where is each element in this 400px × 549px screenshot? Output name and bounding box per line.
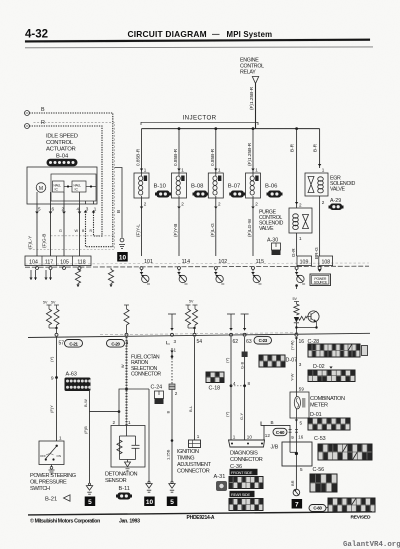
svg-text:C-60: C-60 [276,430,285,435]
svg-text:G-Y: G-Y [239,413,244,420]
svg-text:R: R [41,120,45,126]
svg-text:10: 10 [119,254,127,261]
svg-text:(Y): (Y) [49,356,54,362]
svg-text:0.85B-R: 0.85B-R [173,148,178,166]
svg-text:VALVE: VALVE [330,187,346,193]
svg-text:2: 2 [175,391,178,396]
svg-text:B: B [41,107,45,113]
svg-text:REAR SIDE: REAR SIDE [231,492,250,497]
svg-text:D-01: D-01 [310,412,322,418]
svg-text:BR-G: BR-G [314,247,319,259]
svg-text:G: G [59,229,62,233]
svg-text:INJECTOR: INJECTOR [183,115,217,122]
svg-text:10: 10 [146,499,154,506]
svg-text:ACTUATOR: ACTUATOR [46,147,76,153]
svg-text:1: 1 [94,207,97,212]
svg-text:1: 1 [174,348,177,353]
svg-text:1: 1 [218,168,221,173]
svg-text:1: 1 [144,168,147,173]
svg-text:© Mitsubishi Motors Corporatio: © Mitsubishi Motors Corporation [30,518,100,525]
svg-text:OFF: OFF [40,454,46,458]
svg-text:62: 62 [233,339,239,345]
svg-text:(F)Y-B: (F)Y-B [173,224,178,237]
svg-text:0.85B-R: 0.85B-R [210,148,215,166]
svg-text:B: B [116,210,121,213]
svg-text:7: 7 [295,501,299,508]
svg-text:G-R: G-R [291,248,296,257]
svg-text:(Y): (Y) [225,411,230,417]
svg-text:(F)G-B: (F)G-B [42,234,47,248]
svg-text:C-23: C-23 [259,338,268,343]
svg-text:CIRCUIT DIAGRAM: CIRCUIT DIAGRAM [128,29,207,39]
svg-text:57: 57 [59,341,65,347]
svg-text:DIAGNOSIS: DIAGNOSIS [230,451,258,457]
svg-text:3: 3 [86,207,89,212]
svg-text:C-53: C-53 [314,436,326,442]
svg-text:(Y-W): (Y-W) [291,340,295,350]
svg-text:8: 8 [248,381,251,386]
svg-text:CONNECTOR: CONNECTOR [230,457,263,463]
svg-text:117: 117 [45,260,53,266]
svg-text:FRONT SIDE: FRONT SIDE [231,470,253,475]
svg-text:B-W: B-W [83,399,88,407]
svg-text:B-11: B-11 [119,486,130,492]
svg-text:5V: 5V [293,297,298,301]
svg-text:2: 2 [144,202,147,207]
svg-text:118: 118 [77,260,85,266]
svg-text:SENSOR: SENSOR [105,478,127,484]
svg-text:D-02: D-02 [313,364,325,370]
svg-text:5: 5 [300,467,303,472]
svg-text:RELAY: RELAY [240,70,256,76]
svg-text:4-32: 4-32 [25,28,48,40]
svg-text:109: 109 [300,260,309,266]
svg-text:9: 9 [51,376,54,381]
svg-text:MPI System: MPI System [227,30,273,39]
svg-text:1: 1 [128,420,131,425]
svg-text:(F)Y-L: (F)Y-L [136,224,141,237]
svg-text:M: M [39,186,43,192]
svg-text:1: 1 [233,435,236,440]
svg-text:6: 6 [52,207,55,212]
svg-text:A-31: A-31 [214,474,226,480]
svg-text:1: 1 [322,168,325,173]
svg-text:ON: ON [57,454,62,458]
svg-text:C-60: C-60 [313,506,322,511]
svg-text:IGNITION: IGNITION [177,449,199,455]
svg-text:B-08: B-08 [191,183,204,189]
svg-text:5: 5 [300,421,303,426]
svg-text:102: 102 [218,259,227,265]
svg-text:D-07: D-07 [286,358,298,364]
svg-text:CONNECTOR: CONNECTOR [131,372,161,378]
svg-text:1: 1 [255,168,258,173]
svg-text:IDLE SPEED: IDLE SPEED [46,134,78,140]
svg-text:(F)B: (F)B [83,426,88,434]
svg-text:C-56: C-56 [313,467,325,473]
svg-text:(F)1.25B-R: (F)1.25B-R [247,142,252,166]
svg-text:5: 5 [170,499,174,506]
svg-text:IC: IC [75,188,79,192]
svg-text:IC: IC [55,188,59,192]
svg-text:B-06: B-06 [265,183,278,189]
svg-text:101: 101 [144,259,153,265]
svg-text:C-18: C-18 [209,386,221,392]
svg-text:1: 1 [181,168,184,173]
svg-text:5V: 5V [189,300,194,304]
svg-text:W: W [75,229,79,233]
svg-text:B: B [271,420,274,425]
svg-text:B: B [166,411,171,414]
svg-text:PHDE9214-A: PHDE9214-A [187,515,215,521]
svg-text:4: 4 [77,207,80,212]
svg-text:DETONATION: DETONATION [105,472,138,478]
svg-text:16: 16 [299,339,305,345]
svg-text:ADJUSTMENT: ADJUSTMENT [177,462,212,468]
svg-text:G-B: G-B [240,362,245,369]
svg-text:10: 10 [247,435,253,440]
svg-text:B-R: B-R [290,143,295,152]
svg-text:5V: 5V [43,301,48,305]
svg-text:(Y): (Y) [225,357,230,363]
svg-text:SWITCH: SWITCH [30,486,50,492]
svg-text:Y-W: Y-W [290,373,295,381]
svg-text:1: 1 [59,436,62,441]
svg-text:2: 2 [322,200,325,205]
svg-text:1: 1 [197,434,200,439]
svg-text:(F)L-G: (F)L-G [210,223,215,237]
svg-text:63: 63 [246,339,252,345]
svg-text:(F)Y: (F)Y [49,405,54,413]
svg-text:—: — [212,30,220,39]
svg-text:2: 2 [255,202,258,207]
svg-text:(F)LG-W: (F)LG-W [247,218,252,237]
svg-text:OIL PRESSURE: OIL PRESSURE [30,480,67,486]
svg-text:CONNECTOR: CONNECTOR [177,469,210,475]
svg-text:B-21: B-21 [45,497,57,503]
svg-text:C-21: C-21 [69,341,78,346]
svg-text:16: 16 [298,434,303,439]
svg-text:A-63: A-63 [66,372,77,378]
svg-text:1: 1 [299,236,302,241]
svg-text:GalantVR4.org: GalantVR4.org [343,541,400,549]
svg-text:59: 59 [299,387,305,392]
svg-text:(F)1.25B-R: (F)1.25B-R [249,86,254,110]
svg-text:0.85B-R: 0.85B-R [136,148,141,166]
svg-text:REVISED: REVISED [351,514,371,520]
svg-text:A-29: A-29 [330,198,341,204]
svg-text:105: 105 [60,260,69,266]
svg-text:METER: METER [310,403,328,409]
svg-text:104: 104 [29,260,38,266]
svg-text:Jan. 1993: Jan. 1993 [119,519,140,525]
svg-text:54: 54 [197,339,203,345]
svg-text:BR: BR [290,480,295,486]
svg-text:5V: 5V [51,301,56,305]
svg-text:B-10: B-10 [154,183,167,189]
svg-text:5: 5 [88,499,92,506]
svg-text:B-L: B-L [188,405,193,412]
svg-text:12: 12 [265,433,271,438]
svg-text:B-R: B-R [313,143,318,152]
svg-text:B-04: B-04 [56,153,69,159]
svg-text:3: 3 [174,339,177,344]
svg-text:2: 2 [218,202,221,207]
svg-text:J/B: J/B [271,445,279,451]
svg-text:2: 2 [299,203,302,208]
svg-text:POWER STEERING: POWER STEERING [30,473,76,479]
svg-text:C-20: C-20 [111,341,120,346]
svg-text:(F)L-Y: (F)L-Y [28,235,33,249]
svg-text:C-24: C-24 [151,385,163,391]
svg-text:1.25B: 1.25B [166,449,171,460]
svg-text:115: 115 [256,259,264,265]
svg-text:TIMING: TIMING [177,456,194,462]
svg-text:W: W [121,364,125,368]
svg-text:VALVE: VALVE [259,226,274,232]
svg-text:2: 2 [181,202,184,207]
svg-text:108: 108 [321,260,330,266]
svg-text:CONTROL: CONTROL [46,140,74,146]
svg-text:114: 114 [182,259,190,265]
svg-text:B-07: B-07 [228,183,240,189]
svg-text:2: 2 [113,420,116,425]
svg-text:3: 3 [299,362,302,367]
svg-text:SOURCE: SOURCE [314,281,328,285]
svg-text:4: 4 [233,381,236,386]
svg-text:5: 5 [38,207,41,212]
svg-text:COMBINATION: COMBINATION [310,396,345,402]
